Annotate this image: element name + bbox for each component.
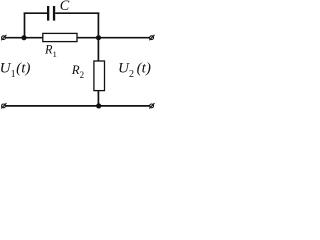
- terminal output bottom-right: [149, 103, 154, 108]
- terminal output top-right: [149, 35, 154, 40]
- node left junction: [21, 35, 26, 40]
- wire top-left horizontal: [6, 37, 43, 39]
- wire bottom rail: [6, 105, 150, 107]
- resistor R2: [94, 61, 105, 91]
- node right junction: [96, 35, 101, 40]
- svg-text:C: C: [60, 0, 70, 14]
- wire R2 upper lead: [97, 38, 99, 62]
- wire R2 lower lead: [97, 90, 99, 106]
- node bottom junction: [96, 103, 101, 108]
- resistor R1: [43, 33, 77, 41]
- wire right riser: [97, 13, 99, 38]
- wire capacitor to right riser: [55, 12, 99, 14]
- wire R1 to right junction: [77, 37, 150, 39]
- capacitor C: [47, 6, 55, 21]
- terminal input top-left: [1, 35, 6, 40]
- wire top to capacitor: [24, 12, 48, 14]
- wire left riser: [24, 13, 26, 38]
- terminal input bottom-left: [1, 103, 6, 108]
